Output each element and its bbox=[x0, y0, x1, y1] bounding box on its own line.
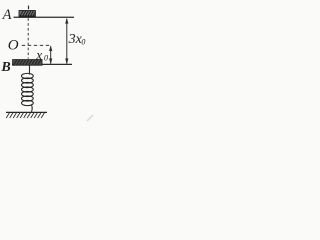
spring bottom stem bbox=[31, 105, 32, 113]
spring top stem bbox=[29, 66, 31, 75]
spring coils bbox=[22, 73, 34, 105]
faint mark bottom right bbox=[87, 115, 93, 121]
block A bbox=[19, 11, 35, 17]
3x0 dimension line bbox=[65, 18, 68, 65]
svg-text:3x: 3x bbox=[68, 32, 83, 47]
ground line bbox=[6, 111, 47, 113]
svg-text:0: 0 bbox=[81, 37, 85, 46]
svg-text:O: O bbox=[8, 38, 19, 54]
block B bbox=[13, 60, 42, 66]
svg-text:A: A bbox=[2, 7, 12, 23]
top level line bbox=[14, 16, 75, 18]
dash above block A bbox=[28, 6, 30, 10]
B level line bbox=[12, 63, 72, 65]
O level dashed line bbox=[22, 44, 51, 46]
x0 dimension line bbox=[49, 45, 52, 64]
svg-text:B: B bbox=[0, 60, 10, 75]
svg-text:0: 0 bbox=[44, 53, 48, 62]
ground hatching bbox=[6, 113, 44, 118]
center dashed line A to B bbox=[27, 18, 29, 58]
